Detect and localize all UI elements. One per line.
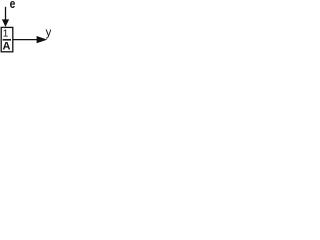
output wire [13, 39, 38, 41]
svg-text:1: 1 [3, 29, 9, 40]
svg-text:A: A [3, 40, 11, 52]
input arrowhead [2, 19, 9, 27]
svg-text:y: y [46, 27, 51, 39]
svg-text:e: e [10, 0, 16, 11]
input wire (down arrow shaft) [5, 7, 7, 21]
output arrowhead [37, 36, 48, 43]
gain block 1/A [1, 27, 13, 51]
fraction bar [3, 39, 11, 41]
